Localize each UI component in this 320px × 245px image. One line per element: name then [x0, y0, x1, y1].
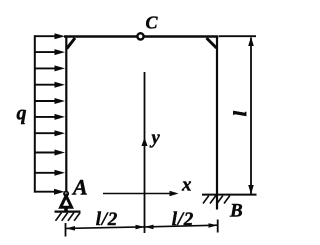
svg-text:x: x [181, 175, 192, 196]
svg-text:C: C [146, 13, 159, 33]
svg-text:B: B [229, 201, 243, 222]
svg-text:q: q [17, 102, 27, 124]
svg-text:l: l [230, 111, 250, 116]
svg-text:y: y [150, 129, 161, 149]
svg-text:l/2: l/2 [172, 209, 194, 230]
svg-text:A: A [71, 174, 88, 199]
svg-text:l/2: l/2 [96, 209, 118, 230]
